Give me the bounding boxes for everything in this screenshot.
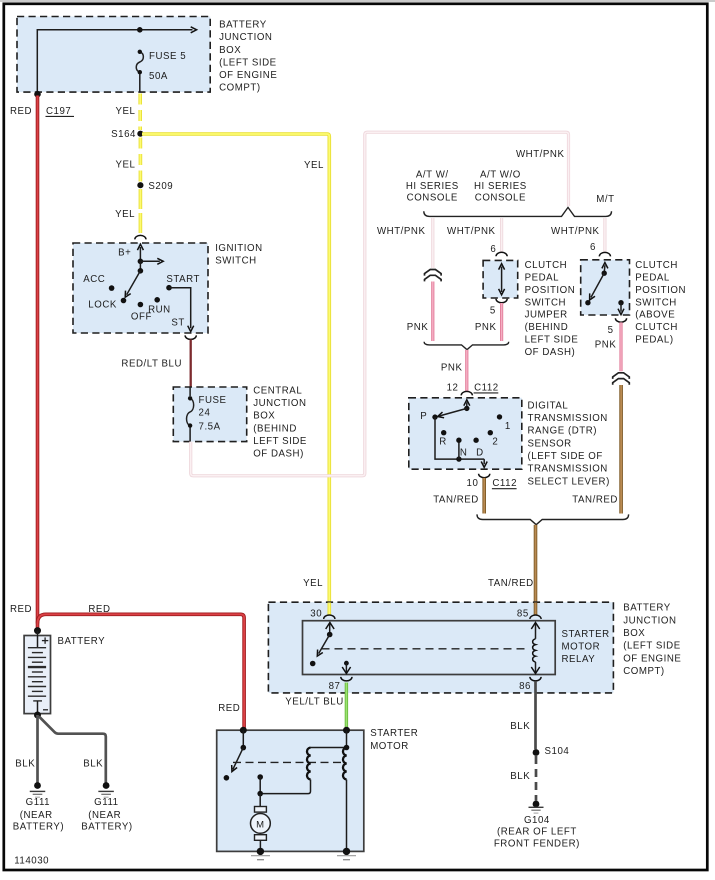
svg-text:CLUTCH: CLUTCH — [525, 260, 568, 271]
svg-text:C112: C112 — [474, 382, 499, 393]
motor M — [255, 807, 267, 813]
svg-text:(BEHIND: (BEHIND — [525, 322, 569, 333]
svg-text:G111: G111 — [94, 797, 118, 808]
svg-text:C197: C197 — [46, 106, 71, 117]
node battery - — [34, 712, 41, 719]
relay actuation dashed — [322, 648, 530, 650]
svg-text:CLUTCH: CLUTCH — [635, 322, 678, 333]
svg-text:ACC: ACC — [83, 274, 105, 285]
svg-text:SWITCH: SWITCH — [635, 297, 677, 308]
svg-text:ST: ST — [171, 318, 184, 329]
svg-text:JUNCTION: JUNCTION — [219, 32, 272, 43]
contact R — [441, 430, 446, 435]
svg-text:(BEHIND: (BEHIND — [253, 423, 297, 434]
svg-text:WHT/PNK: WHT/PNK — [516, 149, 565, 160]
lever node — [464, 406, 469, 411]
svg-text:86: 86 — [519, 681, 531, 692]
jumper double arrow — [501, 267, 503, 293]
svg-text:5: 5 — [608, 325, 614, 336]
wire WHT/PNK branch 2 — [500, 218, 503, 253]
relay switch arrow — [329, 623, 331, 635]
brace merge TAN/RED — [477, 514, 629, 524]
svg-text:TAN/RED: TAN/RED — [433, 494, 479, 505]
arrow right — [140, 260, 159, 262]
svg-text:12: 12 — [447, 382, 459, 393]
svg-text:BLK: BLK — [510, 721, 530, 732]
svg-text:TAN/RED: TAN/RED — [572, 494, 618, 505]
wire PNK below clutch switch — [619, 322, 622, 371]
svg-text:PNK: PNK — [441, 363, 463, 374]
svg-text:COMPT): COMPT) — [219, 83, 261, 94]
wire BLK right ground — [39, 717, 106, 784]
svg-text:MOTOR: MOTOR — [370, 741, 409, 752]
wire RED/LT BLU — [190, 339, 192, 387]
svg-text:2: 2 — [492, 436, 498, 447]
central junction box (fuse 24) — [173, 387, 246, 442]
svg-text:CONSOLE: CONSOLE — [475, 193, 526, 204]
contact stub — [257, 774, 263, 780]
svg-text:CENTRAL: CENTRAL — [253, 385, 302, 396]
svg-text:HI SERIES: HI SERIES — [406, 181, 459, 192]
svg-text:50A: 50A — [149, 71, 168, 82]
svg-text:FRONT FENDER): FRONT FENDER) — [494, 838, 580, 849]
svg-text:RED: RED — [10, 604, 32, 615]
wire coil right down — [346, 780, 348, 852]
wire YEL dashed to S209 — [139, 138, 143, 182]
contact 1 — [497, 414, 502, 419]
svg-text:CLUTCH: CLUTCH — [635, 260, 678, 271]
svg-text:BATTERY: BATTERY — [219, 20, 267, 31]
splice S104 — [533, 749, 540, 756]
ground node right — [343, 848, 350, 855]
brace split — [424, 207, 612, 216]
svg-text:D: D — [476, 448, 484, 459]
contact pin 5 — [618, 300, 623, 305]
contact LOCK — [121, 298, 127, 304]
svg-text:5: 5 — [490, 305, 496, 316]
B+ arrow up — [139, 247, 141, 261]
wire P to pin 10 — [435, 417, 484, 459]
splice S164 — [137, 131, 143, 137]
wire YEL dashed to S164 — [138, 94, 142, 131]
svg-text:YEL: YEL — [115, 209, 135, 220]
svg-text:BATTERY: BATTERY — [623, 603, 671, 614]
svg-text:SENSOR: SENSOR — [528, 438, 572, 449]
switch lever — [139, 261, 141, 271]
svg-text:WHT/PNK: WHT/PNK — [551, 226, 600, 237]
svg-text:YEL: YEL — [116, 106, 136, 117]
svg-text:(NEAR: (NEAR — [88, 810, 121, 821]
svg-text:CONSOLE: CONSOLE — [407, 193, 458, 204]
svg-text:LEFT SIDE: LEFT SIDE — [253, 436, 307, 447]
svg-text:RUN: RUN — [148, 305, 171, 316]
svg-text:YEL: YEL — [304, 160, 324, 171]
svg-text:FUSE: FUSE — [199, 395, 227, 406]
wire RED to battery and starter — [36, 96, 40, 632]
svg-text:YEL/LT BLU: YEL/LT BLU — [285, 697, 343, 708]
svg-text:(LEFT SIDE: (LEFT SIDE — [219, 57, 277, 68]
wire BLK — [534, 681, 537, 749]
svg-text:85: 85 — [517, 609, 529, 620]
starter motor box — [217, 730, 364, 851]
svg-text:SWITCH: SWITCH — [525, 297, 567, 308]
svg-text:PEDAL: PEDAL — [525, 273, 560, 284]
node — [257, 791, 263, 797]
inline connector — [613, 373, 630, 379]
svg-text:87: 87 — [329, 681, 341, 692]
svg-text:(NEAR: (NEAR — [20, 810, 53, 821]
battery junction box (top, fuse 5) — [17, 17, 210, 93]
node — [137, 27, 143, 33]
svg-text:TAN/RED: TAN/RED — [488, 578, 534, 589]
svg-text:BLK: BLK — [15, 759, 35, 770]
svg-text:S164: S164 — [111, 129, 136, 140]
svg-text:OF DASH): OF DASH) — [525, 347, 576, 358]
svg-text:PNK: PNK — [595, 339, 617, 350]
svg-text:PNK: PNK — [407, 322, 429, 333]
svg-text:N: N — [460, 448, 468, 459]
svg-text:STARTER: STARTER — [370, 728, 418, 739]
svg-text:HI SERIES: HI SERIES — [474, 181, 527, 192]
contact 2 — [488, 430, 493, 435]
fuse F5 50A — [136, 52, 143, 72]
svg-text:COMPT): COMPT) — [623, 666, 665, 677]
svg-text:6: 6 — [490, 244, 496, 255]
svg-text:BATTERY): BATTERY) — [13, 822, 64, 833]
svg-text:PEDAL): PEDAL) — [635, 335, 673, 346]
svg-text:OF ENGINE: OF ENGINE — [623, 653, 681, 664]
svg-text:S209: S209 — [148, 181, 173, 192]
contact START — [166, 285, 172, 291]
svg-text:1: 1 — [505, 421, 511, 432]
svg-text:M: M — [256, 819, 264, 830]
svg-text:BOX: BOX — [253, 411, 275, 422]
svg-text:10: 10 — [467, 478, 479, 489]
svg-text:WHT/PNK: WHT/PNK — [447, 226, 496, 237]
starter motor relay box — [303, 621, 556, 675]
svg-text:RED/LT BLU: RED/LT BLU — [121, 359, 182, 370]
wire TAN/RED right — [619, 385, 623, 514]
svg-text:JUMPER: JUMPER — [525, 310, 568, 321]
svg-text:C112: C112 — [492, 478, 517, 489]
svg-text:START: START — [166, 274, 200, 285]
svg-text:MOTOR: MOTOR — [562, 642, 601, 653]
svg-text:RED: RED — [218, 703, 240, 714]
svg-text:(REAR OF LEFT: (REAR OF LEFT — [497, 826, 577, 837]
svg-text:A/T W/O: A/T W/O — [480, 169, 521, 180]
wire TAN/RED to relay pin 85 — [534, 525, 538, 615]
wire TAN/RED into pin 85 — [534, 603, 538, 615]
solenoid coil left — [307, 748, 311, 780]
svg-text:RELAY: RELAY — [562, 654, 596, 665]
wire TAN/RED from pin 10 — [482, 478, 486, 514]
svg-text:JUNCTION: JUNCTION — [623, 615, 676, 626]
contact RUN — [154, 297, 160, 303]
ground node motor — [257, 848, 264, 855]
wire YEL S164 to starter relay pin 30 — [142, 134, 329, 615]
svg-text:G111: G111 — [26, 797, 50, 808]
relay contact — [310, 661, 316, 667]
contact ACC — [109, 285, 115, 291]
svg-text:24: 24 — [199, 407, 211, 418]
ground G111 left — [34, 782, 41, 789]
actuation dashed — [233, 761, 342, 763]
contact — [585, 300, 590, 305]
svg-text:7.5A: 7.5A — [199, 421, 221, 432]
ignition switch box — [73, 243, 208, 333]
wire PNK branch 2 — [500, 303, 503, 341]
svg-text:(LEFT SIDE OF: (LEFT SIDE OF — [528, 451, 603, 462]
svg-text:BATTERY): BATTERY) — [81, 822, 132, 833]
wire WHT/PNK loop — [191, 132, 569, 476]
svg-text:RANGE (DTR): RANGE (DTR) — [528, 426, 598, 437]
splice S209 — [137, 182, 143, 188]
svg-text:PEDAL: PEDAL — [635, 273, 670, 284]
svg-text:FUSE 5: FUSE 5 — [149, 51, 186, 62]
svg-text:IGNITION: IGNITION — [215, 243, 262, 254]
svg-text:BOX: BOX — [219, 45, 241, 56]
svg-text:BATTERY: BATTERY — [58, 636, 106, 647]
arrow up pin 12 — [466, 402, 468, 408]
node green entry — [343, 727, 350, 734]
node C197 junction — [34, 91, 41, 98]
wire PNK to DTR pin 12 — [465, 350, 468, 391]
svg-text:SWITCH: SWITCH — [215, 256, 257, 267]
wire START to ST pin — [169, 288, 191, 329]
svg-text:YEL: YEL — [303, 578, 323, 589]
svg-text:BLK: BLK — [83, 759, 103, 770]
svg-text:OF DASH): OF DASH) — [253, 449, 304, 460]
wire BLK left ground — [36, 715, 39, 783]
contact OFF — [138, 302, 144, 308]
wire YEL to ignition switch — [139, 189, 143, 235]
node RED entry — [240, 727, 247, 734]
wire YEL/LT BLU — [345, 683, 348, 729]
wire — [37, 30, 192, 92]
svg-text:LOCK: LOCK — [88, 300, 117, 311]
switch arrow up — [603, 265, 606, 273]
svg-text:RED: RED — [88, 604, 110, 615]
wire WHT/PNK branch 1 — [431, 218, 434, 268]
svg-text:DIGITAL: DIGITAL — [528, 400, 569, 411]
svg-text:30: 30 — [310, 609, 322, 620]
svg-text:B+: B+ — [118, 248, 131, 259]
svg-text:S104: S104 — [545, 746, 570, 757]
svg-text:(ABOVE: (ABOVE — [635, 310, 675, 321]
svg-text:WHT/PNK: WHT/PNK — [377, 226, 426, 237]
svg-text:POSITION: POSITION — [525, 285, 576, 296]
svg-text:YEL: YEL — [116, 160, 136, 171]
inline connector — [425, 270, 442, 276]
switch lever — [602, 271, 607, 276]
svg-text:PNK: PNK — [475, 322, 497, 333]
wire coil to motor junction — [260, 780, 310, 794]
svg-text:R: R — [439, 436, 447, 447]
fuse F24 7.5A — [187, 398, 194, 425]
wire WHT/PNK branch 3 M/T — [603, 218, 606, 253]
node — [138, 259, 144, 265]
svg-text:SELECT LEVER): SELECT LEVER) — [528, 476, 610, 487]
contact P — [432, 414, 437, 419]
battery — [24, 636, 50, 714]
wire YEL into pin 30 — [327, 603, 331, 615]
solenoid switch — [242, 730, 244, 745]
svg-text:A/T W/: A/T W/ — [416, 169, 449, 180]
svg-text:BLK: BLK — [510, 771, 530, 782]
solenoid coil right — [343, 748, 347, 780]
svg-text:P: P — [420, 411, 427, 422]
svg-text:6: 6 — [590, 242, 596, 253]
relay coil — [535, 623, 537, 639]
wire BLK dashed — [535, 756, 538, 801]
digital transmission range (DTR) sensor box — [409, 398, 522, 469]
svg-text:TRANSMISSION: TRANSMISSION — [528, 464, 608, 475]
ground G104 — [533, 801, 540, 808]
svg-text:STARTER: STARTER — [562, 629, 610, 640]
svg-text:TRANSMISSION: TRANSMISSION — [528, 413, 608, 424]
clutch pedal position switch box — [581, 260, 630, 315]
arrow down pin 10 — [483, 459, 485, 464]
node N junction — [456, 456, 461, 461]
svg-text:G104: G104 — [524, 815, 550, 826]
svg-text:LEFT SIDE: LEFT SIDE — [525, 335, 579, 346]
svg-text:POSITION: POSITION — [635, 285, 686, 296]
contact — [224, 775, 230, 781]
svg-text:114030: 114030 — [14, 856, 49, 867]
wire PNK branch 1 — [431, 282, 434, 342]
svg-text:RED: RED — [10, 106, 32, 117]
svg-text:M/T: M/T — [596, 194, 614, 205]
clutch pedal position switch jumper box — [483, 260, 518, 298]
pin 87 stub — [344, 661, 349, 666]
svg-text:BOX: BOX — [623, 628, 645, 639]
contact D — [473, 438, 478, 443]
contact N — [456, 438, 461, 443]
svg-text:JUNCTION: JUNCTION — [253, 398, 306, 409]
node coil top — [344, 745, 350, 751]
svg-text:OF ENGINE: OF ENGINE — [219, 70, 277, 81]
ground G111 right — [103, 782, 110, 789]
brace merge PNK — [424, 342, 509, 350]
battery junction box (bottom) — [268, 602, 613, 693]
svg-text:(LEFT SIDE: (LEFT SIDE — [623, 641, 681, 652]
